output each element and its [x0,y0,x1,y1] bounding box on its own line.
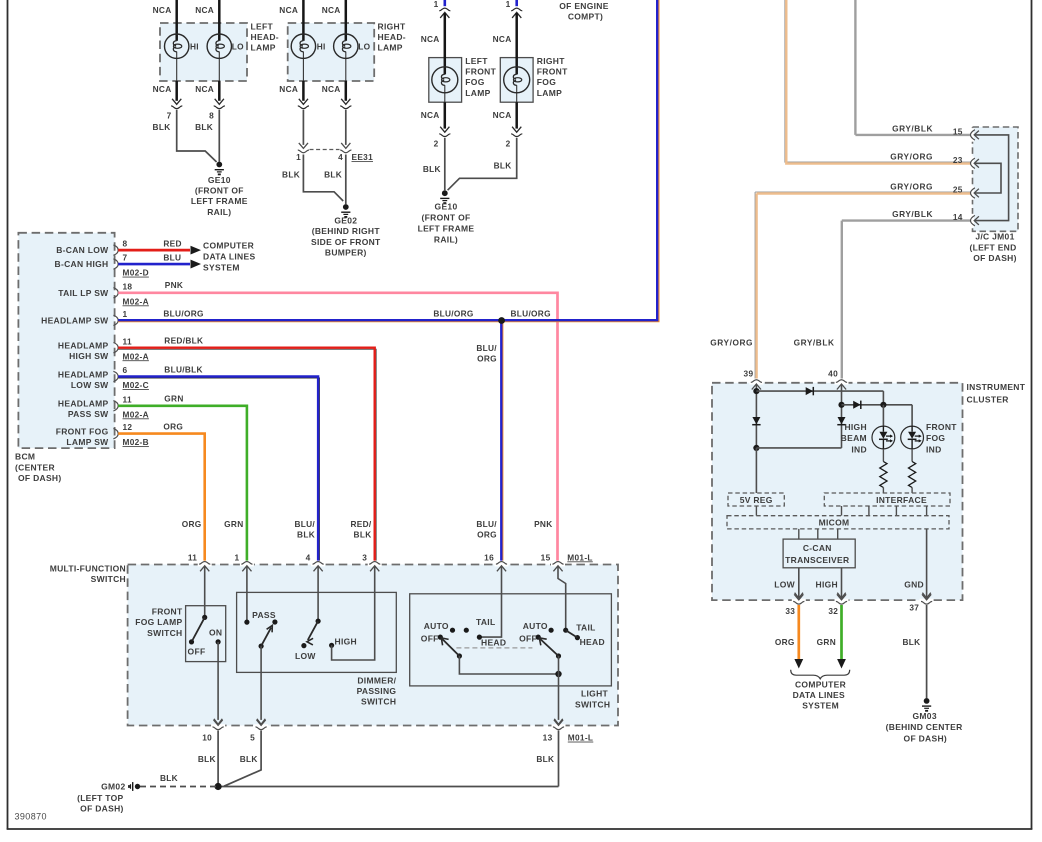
BCM box [18,233,114,448]
svg-text:INSTRUMENT: INSTRUMENT [967,382,1026,392]
svg-text:1: 1 [123,309,128,319]
svg-text:PASS: PASS [252,610,276,620]
svg-text:2: 2 [434,139,439,149]
svg-text:33: 33 [785,606,795,616]
right headlamp ground wire 4 [345,155,347,205]
svg-text:DIMMER/: DIMMER/ [357,675,396,685]
svg-text:10: 10 [202,733,212,743]
BCM pin 6 HEADLAMP LOW SW [58,365,149,390]
svg-text:HIGH SW: HIGH SW [69,351,109,361]
svg-text:LEFT FRAME: LEFT FRAME [418,224,475,234]
svg-text:PNK: PNK [534,519,552,529]
svg-text:GE10: GE10 [208,175,231,185]
svg-text:2: 2 [506,139,511,149]
multi-function switch top pin 16 [484,552,508,571]
MICOM to C-CAN wires [799,529,838,539]
fog lamp supply wire 1 pin 1 [421,0,452,149]
svg-text:BEAM: BEAM [841,433,867,443]
svg-text:LIGHT: LIGHT [581,689,609,699]
label LIGHT SWITCH [575,689,610,710]
svg-text:BLU/ORG: BLU/ORG [433,309,473,319]
svg-text:BLK: BLK [494,161,512,171]
fog lamp supply wire 2 pin 1 [493,0,524,149]
BCM pin 18 TAIL LP SW [58,281,149,306]
label FRONT FOG IND [926,422,957,454]
left fog BLK label [423,164,441,174]
svg-text:8: 8 [209,110,214,120]
INTERFACE to MICOM wires [842,506,927,516]
svg-text:LAMP: LAMP [465,88,490,98]
wire B-CAN HIGH BLU to computer data lines [118,252,201,268]
svg-text:BLK: BLK [282,169,300,179]
svg-text:ORG: ORG [477,353,497,363]
svg-text:OFF: OFF [519,633,537,643]
svg-text:LEFT: LEFT [251,21,274,31]
wire HEADLAMP SW BLU/ORG [118,0,659,561]
svg-text:PNK: PNK [165,280,183,290]
svg-text:M01-L: M01-L [568,733,593,743]
svg-text:LOW: LOW [295,651,316,661]
svg-text:HI: HI [190,41,199,51]
svg-text:OF DASH): OF DASH) [973,253,1016,263]
BCM pin 7 B-CAN HIGH [55,253,149,278]
multi-function switch bottom pin 5 [250,720,268,743]
svg-text:M01-L: M01-L [567,552,592,562]
label FRONT FOG LAMP SWITCH [135,607,183,638]
svg-text:SWITCH: SWITCH [361,697,396,707]
multi-function switch box [128,565,618,726]
light switch right lever [539,638,561,659]
resistor for front fog LED [909,449,916,493]
dashed wire to GM02 [140,773,218,786]
svg-text:RED/: RED/ [350,519,371,529]
svg-text:AUTO: AUTO [424,621,449,631]
svg-text:GRY/BLK: GRY/BLK [892,123,933,133]
svg-text:NCA: NCA [493,34,512,44]
svg-text:OF DASH): OF DASH) [80,803,123,813]
svg-text:LO: LO [358,41,370,51]
svg-text:(LEFT END: (LEFT END [969,242,1016,252]
svg-text:ON: ON [209,627,222,637]
label INSTRUMENT CLUSTER [967,382,1026,405]
dimmer/passing switch box [237,592,397,672]
right fog ground wire [448,138,517,190]
label BCM (CENTER OF DASH) [15,452,61,483]
ground bus junction [215,783,222,790]
cluster top pin 40 [828,368,848,389]
svg-text:6: 6 [123,365,128,375]
svg-text:BLU/ORG: BLU/ORG [163,309,203,319]
multi-function switch top pin 4 [306,552,325,571]
front fog lamp switch box [186,606,226,662]
left headlamp pin labels 7/8 BLK [153,110,215,131]
svg-text:1: 1 [506,0,511,9]
label M01-L at pin 13 [568,733,593,743]
label HIGH BEAM IND [841,422,867,454]
svg-text:BLK: BLK [240,754,258,764]
ground GM02 (LEFT TOP OF DASH) [77,782,140,814]
wire HEADLAMP PASS SW GRN [118,394,247,562]
multi-function switch top pin 11 [188,552,212,571]
svg-text:OFF: OFF [421,633,439,643]
svg-text:C-CAN: C-CAN [803,543,832,553]
svg-text:FOG: FOG [465,77,484,87]
front fog indicator LED [901,426,924,449]
svg-text:(LEFT TOP: (LEFT TOP [77,793,123,803]
headlamp supply wire 4 (NCA) [322,0,353,109]
diode D4 down on pin40 branch [837,417,845,425]
svg-text:ORG: ORG [477,530,497,540]
svg-text:GND: GND [904,580,924,590]
svg-text:5: 5 [250,733,255,743]
svg-text:RED/BLK: RED/BLK [164,336,203,346]
svg-text:GRY/BLK: GRY/BLK [892,209,933,219]
svg-text:BLU/: BLU/ [476,519,497,529]
cluster wire pin39 node [753,385,759,448]
left headlamp ground wire 8 [218,110,220,162]
BCM pin 1 HEADLAMP SW [41,309,127,326]
label RIGHT HEAD-LAMP [378,21,406,52]
svg-text:25: 25 [953,185,963,195]
svg-text:BLK: BLK [324,169,342,179]
ground GE10 left frame rail (fog lamps) [418,190,475,244]
diode D2 row to LED node [842,401,913,427]
svg-text:SWITCH: SWITCH [147,628,182,638]
J/C JM01 pin connectors [971,128,979,227]
svg-text:23: 23 [953,155,963,165]
bulb left LO [207,34,244,58]
ground bus wire BLK [218,786,558,788]
dimmer switch lever and contacts [295,619,357,662]
svg-text:5V REG: 5V REG [740,495,773,505]
svg-text:LAMP SW: LAMP SW [66,437,109,447]
svg-text:OF DASH): OF DASH) [18,473,61,483]
svg-text:NCA: NCA [195,5,214,15]
svg-text:PASS SW: PASS SW [68,409,109,419]
connector EE31 labels [282,152,373,179]
ground GE02 behind front bumper [311,204,381,257]
svg-text:AUTO: AUTO [523,621,548,631]
svg-text:NCA: NCA [153,84,172,94]
left headlamp box [160,23,247,81]
svg-text:MULTI-FUNCTION: MULTI-FUNCTION [50,564,126,574]
svg-text:B-CAN LOW: B-CAN LOW [56,245,109,255]
svg-text:40: 40 [828,368,838,378]
svg-text:FRONT: FRONT [152,607,183,617]
left headlamp ground wire 7 [177,110,217,162]
svg-text:GRY/ORG: GRY/ORG [710,338,753,348]
brace computer data lines [791,670,850,679]
svg-text:LOW: LOW [774,580,795,590]
svg-text:RAIL): RAIL) [434,235,458,245]
svg-text:11: 11 [123,336,132,346]
svg-text:HEAD-: HEAD- [378,32,406,42]
svg-text:TAIL LP SW: TAIL LP SW [58,288,109,298]
svg-text:18: 18 [123,281,133,291]
MICOM box [727,516,949,529]
multi-function switch bottom pin 10 [202,720,225,743]
labels GRY/ORG GRY/BLK above cluster [710,338,834,348]
svg-text:HIGH: HIGH [844,422,866,432]
svg-text:BLK: BLK [198,754,216,764]
svg-text:FRONT FOG: FRONT FOG [56,426,109,436]
svg-text:NCA: NCA [195,84,214,94]
resistor for high beam LED [880,449,887,493]
right fog BLK label [494,161,512,171]
BCM pin 8 B-CAN LOW [56,239,127,256]
label LEFT FRONT FOG LAMP [465,56,496,98]
svg-text:M02-C: M02-C [123,380,149,390]
svg-text:14: 14 [953,212,963,222]
svg-text:4: 4 [306,552,311,562]
svg-text:MICOM: MICOM [819,518,850,528]
cluster bottom pin 32 [828,594,848,616]
svg-text:39: 39 [744,368,754,378]
svg-text:15: 15 [541,552,551,562]
pin 13 wire down [558,731,560,787]
svg-text:J/C JM01: J/C JM01 [975,232,1014,242]
bulb left HI [165,34,199,58]
svg-text:DATA LINES: DATA LINES [203,252,255,262]
svg-text:IND: IND [926,444,942,454]
right front fog lamp box [500,58,533,103]
svg-text:16: 16 [484,552,494,562]
svg-text:HIGH: HIGH [335,636,357,646]
labels GRY wires at J/C JM01 [890,123,963,222]
label LEFT HEAD-LAMP [251,21,279,52]
fog switch contacts and lever [188,615,223,657]
labels BLU/ORG at junction [433,309,551,364]
dimmer switch wire from pin 4 [317,567,319,622]
svg-text:ORG: ORG [775,637,795,647]
svg-text:HEAD-: HEAD- [251,32,279,42]
wire joining diode outputs to 5V REG [756,448,841,493]
svg-text:7: 7 [123,253,128,263]
svg-text:GE10: GE10 [435,202,458,212]
light switch wire from pin 15 [558,567,566,631]
svg-text:32: 32 [828,606,838,616]
svg-text:BUMPER): BUMPER) [325,248,367,258]
light switch left bank wire down [459,656,558,674]
5V REG box [728,493,784,506]
label RIGHT FRONT FOG LAMP [537,56,568,98]
svg-text:LAMP: LAMP [537,88,562,98]
svg-text:4: 4 [338,152,343,162]
svg-text:15: 15 [953,127,963,137]
light switch junction and wire down to pin 13 [554,656,562,724]
bulb right HI [291,34,325,58]
svg-text:TAIL: TAIL [576,622,595,632]
svg-text:HIGH: HIGH [816,580,838,590]
instrument cluster box [712,383,963,600]
svg-text:OFF: OFF [188,647,206,657]
wire ORG to computer data lines [775,605,803,669]
svg-text:FOG: FOG [926,433,945,443]
svg-text:12: 12 [123,422,133,432]
BCM pin 11 HEADLAMP HIGH SW [58,336,149,361]
label COMPUTER DATA LINES SYSTEM (right) [793,679,846,710]
svg-text:GM02: GM02 [101,782,125,792]
BCM pin 12 FRONT FOG LAMP SW [56,422,149,447]
J/C JM01 box [973,127,1019,231]
svg-text:(CENTER: (CENTER [15,462,55,472]
svg-text:HEADLAMP: HEADLAMP [58,341,109,351]
ground GE10 left frame rail (headlamps) [191,162,248,217]
svg-text:GRY/ORG: GRY/ORG [890,181,933,191]
svg-text:COMPUTER: COMPUTER [795,679,846,689]
light switch right bank contacts [519,621,605,647]
svg-text:BLK: BLK [160,773,178,783]
light switch wire from pin 16 [482,567,502,638]
svg-text:LEFT FRAME: LEFT FRAME [191,196,248,206]
svg-text:11: 11 [188,552,197,562]
bulb right fog [504,67,530,93]
label MULTI-FUNCTION SWITCH [50,564,126,585]
svg-text:FRONT: FRONT [465,67,496,77]
svg-text:M02-A: M02-A [123,296,149,306]
dimmer HIGH contact wire to pin 3 [332,567,375,661]
wire B-CAN LOW RED to computer data lines [118,238,201,254]
multi-function switch top pin 15 [541,552,565,571]
svg-text:PASSING: PASSING [357,686,397,696]
svg-text:GRN: GRN [817,637,836,647]
svg-text:COMPT): COMPT) [568,12,603,22]
C-CAN LOW wire [774,568,803,599]
multi-function switch top pin 1 [234,552,253,571]
svg-text:BLU/: BLU/ [476,343,497,353]
svg-text:LAMP: LAMP [378,43,403,53]
wire FRONT FOG LAMP SW ORG [118,421,205,561]
svg-text:390870: 390870 [15,812,47,822]
svg-text:RIGHT: RIGHT [378,21,406,31]
svg-text:HEAD: HEAD [481,638,506,648]
svg-text:GRN: GRN [164,394,183,404]
svg-text:LO: LO [232,41,244,51]
pin 5 wire down [224,731,261,787]
svg-text:BCM: BCM [15,452,35,462]
label M01-L at pin 15 [567,552,592,562]
wire LED node to high beam LED [882,405,884,426]
cluster wire pin40 node [838,385,844,448]
svg-text:1: 1 [434,0,439,9]
svg-text:SIDE OF FRONT: SIDE OF FRONT [311,237,381,247]
svg-text:8: 8 [123,239,128,249]
svg-text:SYSTEM: SYSTEM [802,701,839,711]
svg-text:SWITCH: SWITCH [91,574,126,584]
light switch left bank contacts [421,617,507,648]
svg-text:DATA LINES: DATA LINES [793,690,845,700]
fog switch wire from pin 11 [204,567,206,618]
wire TAIL LP SW PNK [118,280,557,561]
5V REG to MICOM wire [755,506,757,516]
svg-text:BLK: BLK [423,164,441,174]
svg-text:3: 3 [362,552,367,562]
svg-text:GM03: GM03 [913,711,937,721]
drawing number 390870 [15,812,47,822]
svg-text:BLK: BLK [195,122,213,132]
light switch left lever [441,638,462,659]
svg-text:HEADLAMP: HEADLAMP [58,369,109,379]
label OF ENGINE COMPT (cut off) [559,1,608,21]
junction BLU/ORG [498,317,505,324]
svg-text:OF ENGINE: OF ENGINE [559,1,608,11]
wire BLK to GM03 [902,605,926,698]
svg-text:BLK: BLK [536,754,554,764]
label DIMMER/PASSING SWITCH [357,675,397,706]
headlamp supply wire 3 (NCA) [279,0,310,109]
label J/C JM01 (LEFT END OF DASH) [969,232,1016,263]
svg-text:BLU/ORG: BLU/ORG [511,309,551,319]
svg-text:HEAD: HEAD [580,637,605,647]
svg-text:SYSTEM: SYSTEM [203,262,240,272]
diode D1 row to high-beam node [756,387,883,405]
svg-text:M02-A: M02-A [123,351,149,361]
svg-text:FOG: FOG [537,77,556,87]
svg-text:HI: HI [317,41,326,51]
svg-text:ORG: ORG [182,519,202,529]
svg-text:NCA: NCA [279,5,298,15]
svg-text:OF DASH): OF DASH) [904,733,947,743]
column labels above multi-function switch pins [182,519,553,540]
svg-text:BLU: BLU [163,252,181,262]
svg-text:HEADLAMP SW: HEADLAMP SW [41,315,109,325]
svg-text:NCA: NCA [153,5,172,15]
headlamp supply wire 1 (NCA) [153,0,184,109]
svg-text:FRONT: FRONT [926,422,957,432]
right headlamp box [288,23,375,81]
BLK labels below pins 10 5 13 [198,754,554,764]
right headlamp ground wire 1 [303,155,343,202]
cluster bottom pin 37 [909,594,933,612]
passing switch wire from pin 1 [246,567,248,623]
J/C JM01 internal straps [975,135,1009,221]
svg-text:M02-B: M02-B [123,437,149,447]
svg-text:BLK: BLK [902,637,920,647]
multi-function switch bottom pin 13 [543,720,566,743]
svg-text:INTERFACE: INTERFACE [876,495,927,505]
svg-text:B-CAN HIGH: B-CAN HIGH [55,259,109,269]
svg-text:7: 7 [167,110,172,120]
svg-text:GE02: GE02 [334,215,357,225]
light switch box [410,594,612,686]
svg-text:13: 13 [543,733,553,743]
INTERFACE box [824,493,950,506]
svg-text:BLU/BLK: BLU/BLK [164,364,203,374]
label COMPUTER DATA LINES SYSTEM (left) [203,241,255,273]
svg-text:(FRONT OF: (FRONT OF [195,186,244,196]
MICOM GND wire [904,529,931,599]
svg-text:37: 37 [909,603,919,613]
svg-text:LAMP: LAMP [251,43,276,53]
svg-text:NCA: NCA [322,84,341,94]
C-CAN TRANSCEIVER box [783,539,855,568]
svg-text:GRY/ORG: GRY/ORG [890,152,933,162]
svg-text:BLU/: BLU/ [294,519,315,529]
svg-text:BLK: BLK [153,122,171,132]
svg-text:(BEHIND CENTER: (BEHIND CENTER [886,722,963,732]
fog switch ON wire down to pin 10 [214,642,222,724]
svg-text:GRN: GRN [224,519,243,529]
ground GM03 (BEHIND CENTER OF DASH) [886,698,963,743]
svg-text:1: 1 [234,552,239,562]
high beam indicator LED [872,426,895,449]
wires GRY/ORG and GRY/BLK to J/C JM01 [755,0,971,379]
svg-text:NCA: NCA [421,110,440,120]
svg-text:COMPUTER: COMPUTER [203,241,254,251]
svg-text:NCA: NCA [279,84,298,94]
svg-text:ORG: ORG [163,421,183,431]
BCM pin 11 HEADLAMP PASS SW [58,394,149,419]
